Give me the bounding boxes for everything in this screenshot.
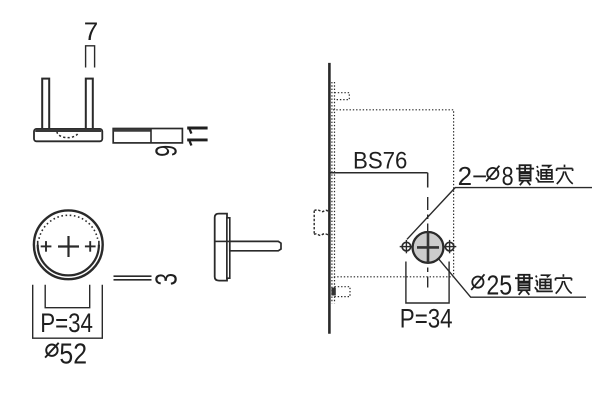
bottom screw boss (dotted) (335, 287, 351, 297)
leader 2-d8 (407, 188, 592, 240)
dim 52 phi symbol (46, 345, 57, 356)
screw hole cross right (85, 245, 96, 247)
kanji tsu (row1) (536, 166, 554, 182)
svg-text:8: 8 (502, 161, 514, 191)
screw hole right (445, 242, 454, 251)
top screw boss (dotted) (335, 93, 350, 100)
svg-text:25: 25 (486, 269, 512, 300)
svg-text:P=34: P=34 (400, 304, 453, 334)
dim diameter 52 bracket (33, 285, 103, 338)
bottom catch block (331, 288, 335, 296)
BS76 dimension line (329, 172, 427, 174)
leader d25 (439, 259, 586, 297)
stem through hole circle (grey) (413, 232, 444, 263)
inner lower semicircle (38, 245, 99, 276)
kanji kan (row1) (516, 165, 534, 185)
kanji ana (row1) (557, 165, 573, 184)
svg-text:3: 3 (149, 273, 183, 286)
hidden hole arc (dashed) (57, 132, 78, 138)
phi symbol row2 (472, 277, 483, 288)
prong left (42, 79, 49, 130)
screw hole left (402, 242, 411, 251)
back spacer strip (227, 218, 230, 278)
kanji ana (row2) (556, 274, 572, 293)
body hidden edge dotted line 2 (334, 82, 336, 303)
inner arc end tick right (98, 241, 100, 246)
hidden upper arc (dotted) (39, 215, 98, 239)
disc edge-on body (215, 214, 227, 281)
kanji tsu (row2) (535, 275, 553, 291)
body hidden edge dotted line 1 (331, 82, 333, 303)
inner arc end tick left (37, 241, 39, 246)
wall line (328, 63, 331, 334)
dim P=34 bracket (install) (406, 262, 449, 304)
dim P=34 bracket (plan) (45, 285, 89, 308)
bar thick top segment (114, 129, 152, 132)
svg-text:P=34: P=34 (40, 308, 93, 338)
hole cross horizontal (417, 246, 439, 249)
stem (230, 241, 281, 250)
svg-text:2−: 2− (458, 161, 488, 191)
kanji kan (row2) (515, 275, 533, 295)
svg-text:BS76: BS76 (353, 147, 407, 174)
door outline (dotted) (333, 110, 454, 277)
outer circle (34, 210, 103, 279)
prong right (86, 79, 93, 130)
screw hole cross left (41, 245, 52, 247)
parting line across disc (215, 240, 230, 242)
svg-text:9: 9 (149, 145, 184, 157)
svg-text:52: 52 (59, 338, 87, 370)
base plate (34, 129, 102, 141)
spacer thickness lines (114, 275, 152, 277)
bar divider (150, 129, 152, 143)
bar outline (113, 129, 182, 143)
svg-text:7: 7 (84, 18, 99, 46)
dim 7 bracket (86, 46, 95, 68)
base top thick edge (35, 129, 101, 132)
center cross (58, 245, 79, 247)
wall recess (dotted, left of wall) (314, 210, 328, 212)
phi symbol row1 (487, 168, 498, 179)
centerline (dashed) (427, 173, 429, 188)
dim 11 label (rotated) (187, 128, 207, 140)
